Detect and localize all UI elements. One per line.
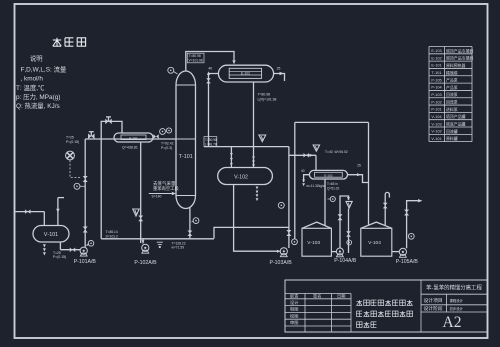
svg-text:Q=51.02: Q=51.02	[327, 187, 340, 191]
svg-text:w=11.32kg/s: w=11.32kg/s	[307, 184, 325, 188]
svg-text:设计项目: 设计项目	[424, 297, 443, 304]
svg-text:回流泵: 回流泵	[446, 92, 458, 97]
svg-text:塔顶产品冷凝器: 塔顶产品冷凝器	[446, 48, 473, 53]
svg-text:设计阶段: 设计阶段	[424, 305, 443, 312]
svg-text:课程设计: 课程设计	[450, 298, 464, 303]
svg-text:25: 25	[357, 164, 361, 168]
svg-text:设计: 设计	[290, 299, 298, 306]
svg-text:精馏塔: 精馏塔	[446, 70, 458, 75]
svg-text:回流罐: 回流罐	[446, 129, 458, 134]
svg-text:w=71.59: w=71.59	[172, 246, 185, 250]
svg-text:P-101A/B: P-101A/B	[74, 259, 97, 265]
svg-text:原料罐: 原料罐	[446, 136, 458, 141]
svg-text:, kmol/h: , kmol/h	[21, 76, 44, 83]
svg-text:V-104: V-104	[368, 240, 381, 246]
svg-text:A2: A2	[443, 314, 462, 331]
svg-text:T-101: T-101	[179, 154, 193, 160]
svg-text:T-101: T-101	[432, 71, 442, 75]
svg-text:V=101.98: V=101.98	[189, 59, 203, 63]
svg-text:25: 25	[277, 66, 281, 70]
svg-text:T=80.98: T=80.98	[258, 92, 271, 96]
svg-text:F,D,W,L,S: 流量: F,D,W,L,S: 流量	[21, 65, 67, 74]
svg-text:P-104A/B: P-104A/B	[334, 258, 357, 264]
svg-text:产品泵: 产品泵	[446, 85, 458, 90]
svg-text:初步设计: 初步设计	[450, 306, 464, 311]
svg-text:回流泵: 回流泵	[446, 100, 458, 105]
svg-text:P=(0.15): P=(0.15)	[66, 140, 79, 144]
svg-text:塔顶产品冷凝器: 塔顶产品冷凝器	[446, 56, 473, 61]
svg-text:T=40. W=94.02: T=40. W=94.02	[325, 150, 348, 154]
svg-text:塔底产品罐: 塔底产品罐	[446, 122, 466, 127]
svg-text:E-102: E-102	[431, 56, 441, 60]
svg-text:40: 40	[208, 67, 212, 71]
svg-text:塔顶产品罐: 塔顶产品罐	[446, 114, 466, 119]
svg-text:P-103A/B: P-103A/B	[269, 260, 292, 266]
svg-text:P-103: P-103	[431, 93, 441, 97]
svg-text:S=140: S=140	[152, 195, 162, 199]
svg-text:P-105A/B: P-105A/B	[396, 259, 419, 265]
svg-text:E-103: E-103	[324, 174, 333, 178]
svg-text:E-101: E-101	[431, 64, 441, 68]
svg-text:苯-氯苯的精馏分离工程: 苯-氯苯的精馏分离工程	[426, 284, 482, 292]
svg-text:V-103: V-103	[307, 240, 320, 246]
svg-text:审图: 审图	[290, 319, 298, 326]
svg-text:制图: 制图	[290, 306, 298, 313]
svg-text:E-102: E-102	[241, 71, 250, 75]
svg-text:Q=438.81: Q=438.81	[122, 146, 138, 150]
svg-text:P=(0.3): P=(0.3)	[161, 146, 172, 150]
svg-text:40: 40	[301, 169, 305, 173]
svg-text:P=(0.15): P=(0.15)	[53, 255, 66, 259]
svg-text:T=80.98: T=80.98	[189, 54, 201, 58]
svg-text:V-102: V-102	[431, 130, 441, 134]
svg-text:职责: 职责	[290, 293, 298, 300]
svg-text:V-102: V-102	[234, 175, 248, 181]
svg-text:产品泵: 产品泵	[446, 78, 458, 83]
svg-text:T: 温度,℃: T: 温度,℃	[16, 83, 45, 92]
svg-text:E-101: E-101	[129, 136, 138, 140]
svg-text:V-104: V-104	[431, 115, 441, 119]
svg-text:进料泵: 进料泵	[446, 107, 458, 112]
svg-text:E-103: E-103	[431, 49, 441, 53]
svg-text:T=25: T=25	[66, 136, 74, 140]
svg-text:Q: 热流量, KJ/s: Q: 热流量, KJ/s	[16, 101, 60, 110]
svg-text:P-101: P-101	[431, 108, 441, 112]
svg-text:P-102A/B: P-102A/B	[134, 260, 157, 266]
svg-text:V-101: V-101	[44, 232, 58, 238]
svg-text:P-104: P-104	[431, 86, 441, 90]
svg-text:V-103: V-103	[431, 122, 441, 126]
svg-text:V-101: V-101	[431, 137, 441, 141]
svg-text:P-102: P-102	[431, 100, 441, 104]
svg-text:T=80.98: T=80.98	[205, 138, 217, 142]
svg-text:校图: 校图	[290, 312, 298, 319]
svg-text:说明: 说明	[30, 54, 43, 63]
svg-text:原料预热器: 原料预热器	[446, 63, 466, 68]
svg-text:S=101.2: S=101.2	[106, 235, 119, 239]
svg-text:L(R)=101.98: L(R)=101.98	[258, 98, 277, 102]
svg-text:P-105: P-105	[431, 78, 441, 82]
svg-text:重苯再空工段: 重苯再空工段	[153, 185, 179, 192]
svg-text:T=65 in: T=65 in	[327, 182, 338, 186]
svg-text:签名: 签名	[313, 293, 321, 300]
svg-text:p: 压力, MPa(g): p: 压力, MPa(g)	[16, 92, 60, 101]
svg-text:L=48.78: L=48.78	[205, 142, 217, 146]
